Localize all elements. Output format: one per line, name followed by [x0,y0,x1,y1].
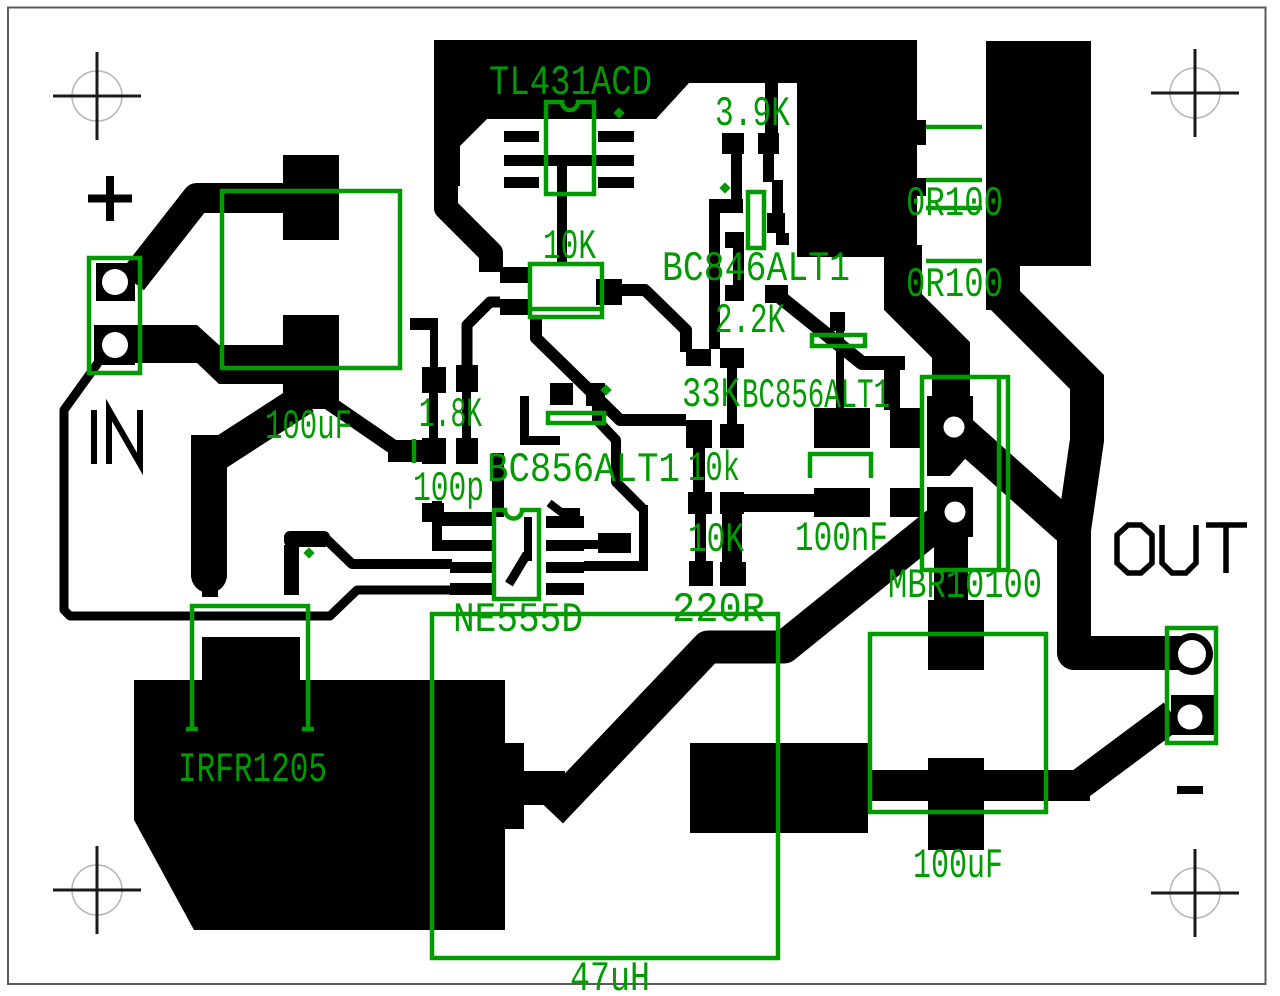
svg-text:MBR10100: MBR10100 [888,562,1042,610]
wire 1.8K to 10K lower-left [467,302,500,368]
top copper plane [434,40,926,257]
L1 47uH outline [432,614,778,958]
wire TL431 down to 10K [557,163,567,265]
pad near column A [830,312,845,331]
D1 MBR10100 outline [922,377,1008,570]
fiducial top-right [1151,49,1239,137]
wire IN- to 100uF bottom pad [135,325,285,384]
wire MBR anode to 100uF out top pad [934,512,968,600]
via bar above NE555 [284,531,330,547]
svg-text:220R: 220R [672,586,765,634]
wire 100uF- down to via [209,398,305,460]
white holes [102,269,1206,730]
100p tick [412,439,417,463]
Q BC846 outline [748,192,764,248]
right column B [986,41,1091,266]
fiducial bottom-right [1151,849,1239,937]
pad 100uF out top [928,600,984,670]
wire teardrop column to gate via [191,435,227,577]
svg-text:BC856ALT1: BC856ALT1 [742,372,890,420]
wire drain to inductor [505,771,565,805]
svg-text:1.8K: 1.8K [419,391,482,439]
pad 100uF out bottom [928,758,984,850]
connector IN outline [89,258,140,373]
wire plane to 3.9K right pad [765,83,778,135]
wire column A to MBR pad [903,245,951,430]
wire 10K left-bottom to mid cluster [536,318,686,420]
wire via bar to NE555 pin 2 [324,537,452,564]
capacitor 100nF outline [810,454,871,478]
U1 NE555D outline [494,510,539,599]
pad MBR10100 anode (hole) [927,487,973,537]
svg-text:TL431ACD: TL431ACD [489,59,652,107]
wire plane left column down to 10K [446,182,491,272]
wire 2.2K right to column A [780,297,905,363]
wire column B to OUT column [1003,298,1087,530]
wire 100p to NE555 [444,512,495,524]
svg-text:3.9K: 3.9K [715,90,791,138]
pad OUT 2 [1171,695,1214,735]
svg-text:47uH: 47uH [570,955,650,996]
Q2 IRFR1205 outline [186,606,314,729]
capacitor C3 100uF outline [870,634,1046,812]
pad OUT 1 [1171,633,1213,675]
wire 100uF to 1.8K bottom pads [388,440,446,462]
fiducial bottom-left [53,846,141,934]
BC856 left cluster pads [550,383,573,405]
green silkscreen [89,102,1216,958]
wire OUT minus [868,770,1090,801]
svg-text:100p: 100p [413,465,484,513]
R 10K outline [530,264,602,317]
svg-text:33K: 33K [682,371,741,419]
wire IN+ to 100uF top pad [132,198,285,281]
via bar stub [284,545,299,595]
BC846 cluster [722,133,744,154]
R 0R100 marks [926,125,982,130]
100nF pads [814,408,870,448]
wire 1.8K right to NE555 pin 1 [492,453,504,517]
wire 100uF- pad to 1.8K bar [322,398,402,453]
svg-text:2.2K: 2.2K [715,297,786,345]
svg-text:BC846ALT1: BC846ALT1 [662,245,850,293]
10K pads [500,267,530,283]
wires NE555 right to BC856 cluster [584,561,647,571]
svg-text:100uF: 100uF [265,403,352,451]
pad 100uF in top [283,155,339,240]
capacitor C1 100uF outline [222,191,400,368]
pad inductor right [690,743,868,833]
small L wire left of NE555 [432,501,442,545]
wire NE555 to 220R to MBR anode [551,513,950,812]
NE555 pads right [546,516,584,528]
IN text [94,410,140,464]
fiducial top-left [53,52,141,140]
TL431 pads [504,131,539,142]
pad MBR10100 cathode (hole) [927,396,973,476]
svg-text:NE555D: NE555D [453,596,583,644]
plus marking [88,176,132,221]
1.8K and 100p pads [422,367,446,393]
pad 100uF in bottom [283,315,339,409]
via stub [202,575,218,597]
minus marking [1177,786,1203,794]
OUT text [1117,525,1247,573]
middle pads column 33K/10k/10K/220R [686,349,711,366]
NE555 inner wire [524,517,532,561]
NE555 pads left [437,514,493,526]
R 33K outline [548,413,604,423]
connector OUT outline [1167,628,1216,743]
svg-text:100nF: 100nF [795,515,888,563]
svg-text:0R100: 0R100 [906,261,1003,309]
svg-text:0R100: 0R100 [906,180,1003,228]
svg-text:100uF: 100uF [913,842,1003,890]
wire mid cluster to 100nF [744,494,814,512]
IN connector pads [96,263,135,301]
svg-text:10k: 10k [688,445,740,493]
wire IN- thin loop to NE555 [64,360,452,616]
wire MBR top pad to OUT pad 1 [955,427,1192,653]
svg-text:10K: 10K [688,516,745,564]
IRFR1205 drain plane [134,637,524,930]
green labels [178,59,1042,996]
svg-text:BC856ALT1: BC856ALT1 [487,446,680,494]
green pin1 dots [303,107,730,558]
R 2.2K outline [812,335,865,346]
wire 10K right pad to mid cluster [614,290,686,352]
U2 TL431ACD outline [546,102,594,194]
wire BC856 right vertical [836,331,844,413]
svg-text:10K: 10K [543,223,597,271]
pad 100p bottom [422,503,444,522]
svg-text:IRFR1205: IRFR1205 [178,746,327,794]
